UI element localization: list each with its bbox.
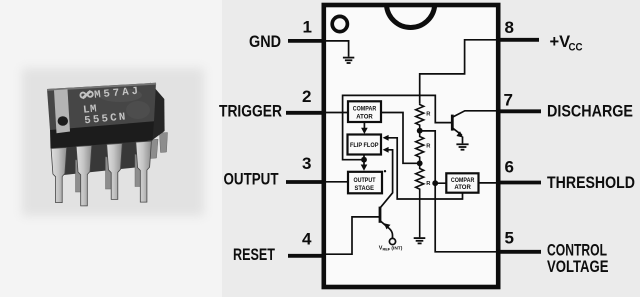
wire: 1/3 Vcc reference to trigger comparator — [381, 113, 420, 164]
Vcc internal wire — [420, 40, 496, 104]
svg-text:2: 2 — [302, 87, 311, 106]
transistor Q2 (reset) bar — [379, 207, 382, 223]
IC photo: back row leg tips — [76, 133, 168, 193]
pin-1 dimple — [58, 116, 68, 126]
silver band at pin-1 end — [54, 89, 70, 133]
comparator U2 (threshold) box — [446, 173, 478, 192]
pin 1 stub — [288, 39, 326, 43]
ground symbol (discharge emitter) — [456, 144, 468, 149]
svg-text:RESET: RESET — [233, 246, 275, 264]
svg-text:COMPAR: COMPAR — [353, 105, 377, 112]
top face — [47, 83, 156, 130]
svg-text:OUTPUT: OUTPUT — [354, 177, 376, 184]
IC photo: front row legs — [51, 141, 151, 206]
wire+arrow: threshold comparator output to flip-flop — [388, 138, 462, 199]
pin 2 stub — [286, 111, 326, 115]
svg-text:TRIGGER: TRIGGER — [219, 103, 282, 121]
svg-text:1: 1 — [303, 18, 312, 37]
svg-text:OUTPUT: OUTPUT — [224, 171, 279, 189]
pin 3 stub — [286, 180, 326, 184]
output stage box — [348, 172, 382, 194]
svg-text:ATOR: ATOR — [356, 113, 373, 120]
resistor R2 — [416, 131, 424, 164]
photo background — [0, 0, 222, 297]
wire: flip-flop output loop to discharge transistor base — [343, 95, 452, 159]
threshold internal wire — [479, 182, 497, 184]
GND internal wire — [326, 41, 349, 57]
Q1 collector wire to pin 7 — [452, 111, 496, 117]
svg-text:CC: CC — [569, 42, 583, 54]
transistor Q1 (discharge) bar — [451, 115, 454, 131]
IC photo: DIP-8 package body — [47, 83, 165, 149]
node: flip-flop output — [363, 155, 365, 160]
svg-text:COMPAR: COMPAR — [451, 177, 475, 184]
wire+arrow: comparator U1 to flip-flop — [363, 122, 365, 128]
speck — [384, 170, 386, 172]
node: R2/R3 junction (1/3 Vcc) — [417, 160, 423, 166]
node: R1/R2 junction (2/3 Vcc) — [417, 128, 423, 134]
wire+arrow: reset transistor collector to flip-flop — [381, 150, 393, 208]
svg-text:5: 5 — [505, 229, 514, 248]
end cap (right side) — [148, 83, 165, 141]
svg-text:DISCHARGE: DISCHARGE — [547, 103, 633, 121]
node: control voltage tap — [432, 180, 438, 186]
IC photo: shadow band behind leg shoulders — [53, 138, 150, 176]
wire: 2/3 Vcc to threshold comparator — [420, 131, 447, 183]
IC schematic body outline — [324, 5, 498, 287]
Q2 emitter with arrow — [380, 221, 389, 229]
comparator U1 (trigger) box — [348, 101, 381, 122]
front face strip — [50, 121, 154, 149]
svg-text:THRESHOLD: THRESHOLD — [547, 174, 635, 192]
wire: control voltage to pin 5 — [435, 183, 496, 252]
pin 1 indicator circle — [332, 16, 347, 31]
resistor R1 — [416, 103, 424, 130]
ground symbol (pin1) — [343, 58, 354, 63]
Q2 base wire to pin 4 — [324, 217, 380, 254]
output internal wire — [324, 181, 348, 183]
svg-text:ATOR: ATOR — [454, 184, 471, 191]
top notch — [387, 6, 435, 28]
svg-text:7: 7 — [504, 91, 513, 110]
top edge highlight — [47, 83, 156, 91]
Q1 emitter — [452, 128, 462, 135]
wire+arrow: flip-flop to output stage — [363, 160, 365, 165]
resistor R3 — [416, 163, 424, 237]
svg-text:6: 6 — [505, 158, 514, 177]
Vref terminal circle — [389, 238, 395, 244]
pin 4 stub — [288, 254, 326, 258]
svg-text:+V: +V — [550, 33, 571, 51]
svg-text:VREF (INT): VREF (INT) — [379, 246, 403, 252]
pin 5 stub — [496, 250, 541, 254]
svg-text:VOLTAGE: VOLTAGE — [547, 258, 609, 276]
svg-text:GND: GND — [249, 33, 281, 51]
svg-text:4: 4 — [302, 230, 312, 249]
svg-text:8: 8 — [505, 18, 514, 37]
pin 8 stub — [496, 38, 539, 42]
svg-text:CONTROL: CONTROL — [547, 242, 607, 260]
svg-text:3: 3 — [302, 154, 311, 173]
pin 7 stub — [496, 109, 541, 113]
pin 6 stub — [496, 181, 541, 185]
NS logo — [80, 91, 93, 99]
flip-flop box — [348, 135, 382, 155]
trigger internal wire — [324, 112, 348, 114]
ground symbol (resistor chain) — [414, 238, 426, 243]
svg-text:FLIP FLOP: FLIP FLOP — [350, 142, 379, 149]
svg-text:STAGE: STAGE — [355, 185, 375, 192]
